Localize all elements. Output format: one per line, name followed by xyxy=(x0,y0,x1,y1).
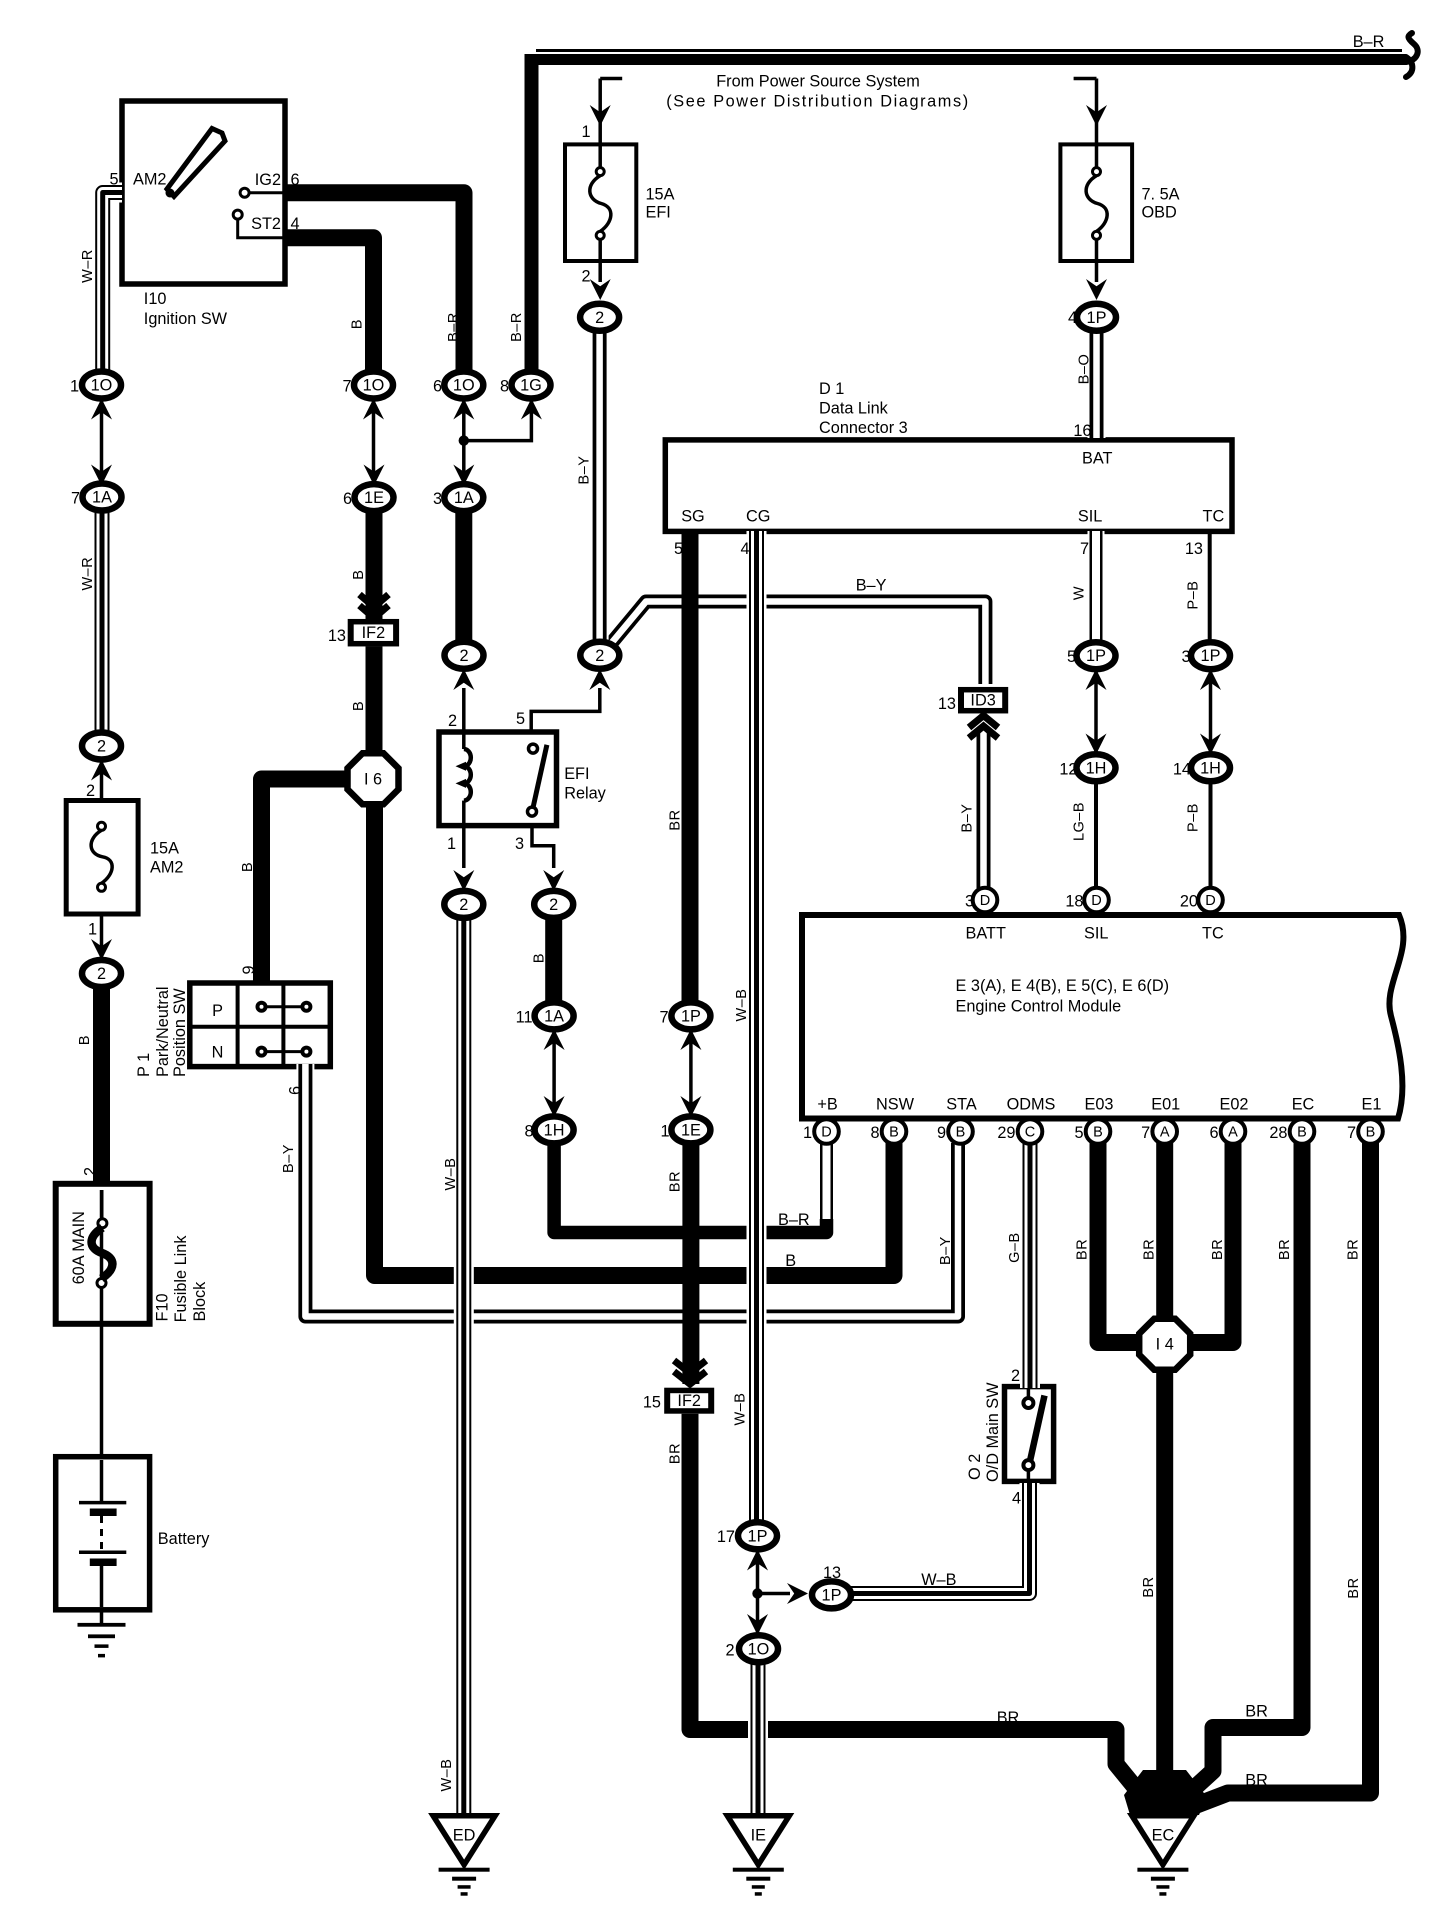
svg-text:IF2: IF2 xyxy=(362,624,386,642)
svg-text:W–R: W–R xyxy=(80,557,96,591)
svg-text:P–B: P–B xyxy=(1186,803,1202,832)
svg-text:1P: 1P xyxy=(822,1586,842,1604)
thin-double wire from ECM +B pin down to B-R corner xyxy=(818,1143,835,1228)
connector 1P pin 17 xyxy=(738,1522,777,1549)
svg-text:1: 1 xyxy=(803,1124,812,1142)
svg-text:Connector 3: Connector 3 xyxy=(819,419,908,437)
svg-text:4: 4 xyxy=(740,540,749,558)
arrow into connector 1P(3) xyxy=(1200,669,1221,690)
arrow into connector 1P(5) xyxy=(1086,669,1107,690)
wire BR from ECM E03 pin 5 to junction I4 xyxy=(1098,1143,1150,1343)
wire B from connector 1E(6) through IF2(13) to junction I6 xyxy=(366,509,383,760)
svg-text:3: 3 xyxy=(433,490,442,508)
thin link 1A(11) to 1H(8) xyxy=(552,1028,556,1120)
fuse tag IF2 pin 13 xyxy=(348,619,399,647)
svg-text:B–Y: B–Y xyxy=(577,456,593,485)
connector ID3 pin 13 xyxy=(958,687,1008,714)
svg-text:9: 9 xyxy=(240,965,258,974)
thin link 1O(1) to 1A(7) xyxy=(100,396,104,488)
svg-text:O/D Main SW: O/D Main SW xyxy=(984,1382,1002,1482)
svg-text:B–Y: B–Y xyxy=(938,1236,954,1265)
arrow into connector 2 below relay pin 3 xyxy=(543,870,564,891)
svg-text:BATT: BATT xyxy=(966,925,1006,943)
svg-text:3: 3 xyxy=(515,835,524,853)
svg-text:W–B: W–B xyxy=(443,1158,459,1191)
svg-text:EFI: EFI xyxy=(646,204,671,222)
svg-text:29: 29 xyxy=(997,1124,1015,1142)
svg-text:B: B xyxy=(351,701,367,711)
svg-text:IG2: IG2 xyxy=(255,171,281,189)
ECM pin EC circle 28 xyxy=(1290,1119,1315,1144)
svg-text:EC: EC xyxy=(1292,1096,1315,1114)
wire BR from ECM E02 pin 6 to junction I4 xyxy=(1180,1143,1233,1343)
svg-text:13: 13 xyxy=(938,695,956,713)
pigtail hook at end of B-R feed xyxy=(1406,33,1418,77)
svg-text:ODMS: ODMS xyxy=(1007,1096,1056,1114)
svg-text:E01: E01 xyxy=(1151,1096,1180,1114)
svg-text:4: 4 xyxy=(1012,1490,1021,1508)
wire W-B from DLC3 CG pin 4 to connector 1P(17) xyxy=(747,531,767,1524)
svg-text:D 1: D 1 xyxy=(819,380,844,398)
svg-text:1O: 1O xyxy=(91,377,113,395)
svg-text:EC: EC xyxy=(1152,1827,1175,1845)
svg-text:1O: 1O xyxy=(453,377,475,395)
svg-text:5: 5 xyxy=(1067,648,1076,666)
ignition switch AM2 contact and lever xyxy=(166,129,286,238)
svg-text:2: 2 xyxy=(82,1167,100,1176)
arrow into connector 1O(1) xyxy=(91,399,112,420)
svg-text:A: A xyxy=(1228,1125,1238,1141)
svg-text:B: B xyxy=(1093,1125,1103,1141)
svg-text:7: 7 xyxy=(1080,540,1089,558)
svg-text:17: 17 xyxy=(717,1528,735,1546)
stub from power source to OBD fuse xyxy=(1074,79,1097,144)
connector 1P pin 4 below OBD fuse xyxy=(1077,304,1116,331)
svg-text:15A: 15A xyxy=(150,840,179,858)
svg-text:8: 8 xyxy=(500,378,509,396)
svg-text:1: 1 xyxy=(660,1123,669,1141)
wire B thick from park/neutral switch pin 9 to junction I6 xyxy=(262,779,351,985)
svg-text:7. 5A: 7. 5A xyxy=(1142,186,1180,204)
svg-text:5: 5 xyxy=(674,540,683,558)
svg-text:1H: 1H xyxy=(544,1121,565,1139)
svg-text:13: 13 xyxy=(823,1564,841,1582)
arrow into connector 2 above relay pin 2 xyxy=(453,669,474,690)
wire B from connector 2 to connector 1A(11) xyxy=(545,917,562,1005)
EFI relay switch xyxy=(528,744,547,816)
thin link 1P(3) to 1H(14) xyxy=(1209,668,1213,757)
data link connector D1 box xyxy=(665,440,1232,532)
svg-text:G–B: G–B xyxy=(1007,1232,1023,1263)
svg-text:P–B: P–B xyxy=(1186,581,1202,610)
arrow into connector 1H(14) xyxy=(1200,734,1221,755)
EFI relay box xyxy=(439,732,557,826)
ECM pin ODMS circle 29 xyxy=(1018,1119,1043,1144)
arrow into connector 2 below relay pin 1 xyxy=(453,870,474,891)
svg-text:1O: 1O xyxy=(748,1640,770,1658)
svg-text:ST2: ST2 xyxy=(251,215,281,233)
svg-text:1: 1 xyxy=(88,921,97,939)
svg-text:1: 1 xyxy=(70,378,79,396)
park/neutral position switch P1 box xyxy=(190,983,330,1067)
arrow into connector 1G(8) xyxy=(521,399,542,420)
svg-text:1G: 1G xyxy=(520,377,542,395)
svg-text:BR: BR xyxy=(997,1709,1020,1727)
arrow into OBD fuse xyxy=(1086,105,1107,126)
connector 1O pin 2 xyxy=(739,1635,778,1662)
connector 1P pin 5 xyxy=(1077,642,1116,669)
svg-text:1A: 1A xyxy=(92,489,112,507)
svg-text:60A MAIN: 60A MAIN xyxy=(70,1211,88,1284)
connector 2 below relay pin 1 xyxy=(444,891,483,918)
engine control module box with torn right edge xyxy=(802,915,1403,1119)
thin wire relay pin2 up to connector 2 xyxy=(462,688,466,732)
svg-text:2: 2 xyxy=(1011,1367,1020,1385)
svg-text:Engine Control Module: Engine Control Module xyxy=(956,998,1122,1016)
svg-text:B–Y: B–Y xyxy=(959,804,975,833)
svg-text:1A: 1A xyxy=(454,489,474,507)
svg-text:2: 2 xyxy=(86,782,95,800)
svg-text:2: 2 xyxy=(448,712,457,730)
connector 1O pin 7 xyxy=(354,372,393,399)
thin wire relay pin3 down to connector 2 xyxy=(532,826,554,868)
wire B-Y from EFI fuse branch to connector ID3 xyxy=(609,602,985,685)
svg-text:W: W xyxy=(1071,586,1087,600)
svg-text:1E: 1E xyxy=(364,489,384,507)
svg-text:8: 8 xyxy=(870,1124,879,1142)
ECM pin STA circle 9 xyxy=(948,1119,973,1144)
connector 1H pin 12 xyxy=(1077,754,1116,781)
svg-text:I 6: I 6 xyxy=(364,770,382,788)
connector 2 above relay pin 2 xyxy=(445,642,484,669)
svg-text:5: 5 xyxy=(109,171,118,189)
svg-text:6: 6 xyxy=(1209,1124,1218,1142)
svg-text:18: 18 xyxy=(1065,893,1083,911)
svg-text:I 4: I 4 xyxy=(1156,1336,1174,1354)
svg-text:8: 8 xyxy=(524,1123,533,1141)
svg-text:1: 1 xyxy=(447,835,456,853)
wire LG-B from connector 1H(12) to ECM SIL pin 18 xyxy=(1094,780,1098,890)
arrow into connector 2 above relay pin 5 xyxy=(589,669,610,690)
ground EC xyxy=(1132,1816,1194,1896)
svg-text:6: 6 xyxy=(291,171,300,189)
svg-text:1P: 1P xyxy=(1201,647,1221,665)
EFI relay coil xyxy=(456,732,471,826)
svg-text:D: D xyxy=(1205,893,1215,909)
svg-text:16: 16 xyxy=(1073,422,1091,440)
svg-text:D: D xyxy=(980,893,990,909)
fuse 7.5A OBD box xyxy=(1060,144,1132,261)
connector 2 above relay pin 5 xyxy=(580,642,619,669)
svg-text:13: 13 xyxy=(328,627,346,645)
wire BR from DLC3 SG pin 5 down to connector 1P(7) xyxy=(682,531,699,1004)
svg-text:2: 2 xyxy=(459,896,468,914)
arrow into connector 1O(2) xyxy=(747,1614,768,1635)
svg-text:Relay: Relay xyxy=(564,785,606,803)
arrow into connector 2 below EFI fuse xyxy=(590,279,611,300)
svg-text:Fusible Link: Fusible Link xyxy=(172,1235,190,1323)
svg-text:2: 2 xyxy=(97,965,106,983)
connector 1E pin 6 xyxy=(355,484,394,511)
svg-text:7: 7 xyxy=(71,490,80,508)
svg-text:BR: BR xyxy=(1141,1239,1157,1260)
svg-text:6: 6 xyxy=(287,1086,305,1095)
svg-text:4: 4 xyxy=(1068,309,1077,327)
svg-text:E03: E03 xyxy=(1085,1096,1114,1114)
wire BR from ECM EC pin 28 to ground EC xyxy=(1167,1143,1302,1813)
connector 1A pin 3 xyxy=(444,484,483,511)
stub from power source to EFI fuse xyxy=(600,79,622,144)
svg-text:W–B: W–B xyxy=(439,1759,455,1792)
thin link 1O(7) to 1E(6) xyxy=(372,396,376,490)
svg-text:Data Link: Data Link xyxy=(819,400,889,418)
svg-text:ID3: ID3 xyxy=(970,692,995,710)
chevron arrow into fuse IF2(15) xyxy=(674,1361,706,1385)
svg-text:7: 7 xyxy=(1347,1124,1356,1142)
svg-text:2: 2 xyxy=(581,268,590,286)
chevron arrow into fuse IF2(13) xyxy=(360,595,389,619)
fuse 15A AM2 box xyxy=(66,801,138,915)
connector 1G pin 8 xyxy=(512,372,551,399)
svg-text:EFI: EFI xyxy=(564,765,589,783)
thin link 1P(5) to 1H(12) xyxy=(1094,668,1098,757)
arrow into connector 1A(7) xyxy=(91,465,112,486)
arrow into connector 2 above AM2 fuse xyxy=(91,760,112,781)
arrow into connector 1P(7) xyxy=(680,1029,701,1050)
connector 2 above AM2 fuse xyxy=(82,733,121,760)
svg-text:B: B xyxy=(1297,1125,1307,1141)
svg-text:9: 9 xyxy=(937,1124,946,1142)
junction dot on W-B wire xyxy=(752,1588,762,1598)
thin wire relay pin1 down to connector 2 xyxy=(462,826,466,868)
svg-text:OBD: OBD xyxy=(1142,204,1177,222)
svg-text:15A: 15A xyxy=(646,186,675,204)
svg-text:AM2: AM2 xyxy=(150,859,183,877)
svg-text:D: D xyxy=(821,1125,831,1141)
thin wire fusible link to battery xyxy=(100,1190,104,1457)
thin link 1P(7) to 1E(1) xyxy=(689,1028,693,1120)
ECM pin E02 circle 6 xyxy=(1221,1119,1246,1144)
connector 1H pin 14 xyxy=(1191,754,1230,781)
AM2 fuse element xyxy=(91,822,112,891)
park/neutral switch internals xyxy=(190,983,330,1067)
svg-text:12: 12 xyxy=(1059,761,1077,779)
svg-text:1P: 1P xyxy=(681,1007,701,1025)
DLC3 SIL pin circle 18 xyxy=(1084,888,1109,913)
svg-text:BR: BR xyxy=(1245,1703,1268,1721)
O/D main switch internals xyxy=(1023,1389,1044,1479)
svg-text:2: 2 xyxy=(725,1642,734,1660)
wire B-Y from ID3 to ECM BATT pin 3 xyxy=(975,728,993,890)
connector 2 below EFI fuse xyxy=(580,304,619,331)
svg-text:BR: BR xyxy=(1141,1576,1157,1597)
wire B-R from connector 1H to ECM +B (horizontal run) xyxy=(554,1141,826,1233)
svg-text:D: D xyxy=(1091,893,1101,909)
svg-text:B–R: B–R xyxy=(446,312,462,342)
OBD fuse element xyxy=(1086,168,1107,240)
junction dot xyxy=(459,435,469,445)
fusible link F10 element xyxy=(92,1190,113,1318)
svg-text:E1: E1 xyxy=(1362,1096,1382,1114)
connector 1P pin 3 xyxy=(1191,642,1230,669)
battery ground symbol xyxy=(78,1623,126,1658)
svg-text:B: B xyxy=(350,319,366,329)
svg-text:BR: BR xyxy=(1346,1577,1362,1598)
svg-text:I10: I10 xyxy=(144,290,167,308)
svg-text:2: 2 xyxy=(595,647,604,665)
DLC3 BATT pin circle 3 xyxy=(973,888,998,913)
arrow into connector 1O(7) xyxy=(363,399,384,420)
svg-text:28: 28 xyxy=(1269,1124,1287,1142)
ECM pin E1 circle 7 xyxy=(1358,1119,1383,1144)
svg-text:E 3(A), E 4(B), E 5(C), E 6(D): E 3(A), E 4(B), E 5(C), E 6(D) xyxy=(956,977,1170,995)
wire W-R from connector 1A(7) to connector 2 xyxy=(92,509,112,734)
svg-text:1H: 1H xyxy=(1086,759,1107,777)
svg-text:W–B: W–B xyxy=(921,1571,956,1589)
connector 1A pin 11 xyxy=(535,1002,574,1029)
wire B ignition ST2 to connector 1O(7) xyxy=(285,238,374,378)
arrow into EFI fuse xyxy=(590,105,611,126)
svg-text:B: B xyxy=(240,862,256,872)
svg-text:P 1: P 1 xyxy=(135,1053,153,1077)
wire BR from IF2(15) to ground EC (bottom bus) xyxy=(690,1414,1156,1813)
svg-text:5: 5 xyxy=(1074,1124,1083,1142)
svg-text:1: 1 xyxy=(581,123,590,141)
DLC3 TC pin circle 20 xyxy=(1198,888,1223,913)
svg-text:6: 6 xyxy=(433,378,442,396)
svg-text:IE: IE xyxy=(751,1827,767,1845)
svg-text:N: N xyxy=(212,1044,224,1062)
wire inside EFI fuse pins xyxy=(598,145,602,282)
wire P-B from DLC3 TC pin 13 to connector 1P(3) xyxy=(1208,531,1212,645)
svg-text:2: 2 xyxy=(595,309,604,327)
ignition switch I10 box xyxy=(122,101,285,284)
svg-text:SIL: SIL xyxy=(1078,508,1102,526)
svg-text:BR: BR xyxy=(1210,1239,1226,1260)
ECM pin NSW circle 8 xyxy=(882,1119,907,1144)
svg-text:B: B xyxy=(351,570,367,580)
svg-text:1O: 1O xyxy=(363,377,385,395)
svg-text:NSW: NSW xyxy=(876,1096,915,1114)
wire B from junction I6 to ECM NSW (horizontal run) xyxy=(375,798,895,1276)
wire B-R from connector 1A(3) to connector 2 above relay xyxy=(455,509,472,643)
svg-text:AM2: AM2 xyxy=(133,171,166,189)
connector 1H pin 8 xyxy=(535,1116,574,1143)
svg-text:14: 14 xyxy=(1173,761,1191,779)
svg-text:+B: +B xyxy=(817,1096,837,1114)
connector 1P pin 13 xyxy=(812,1581,851,1608)
svg-text:A: A xyxy=(1160,1125,1170,1141)
svg-text:1H: 1H xyxy=(1200,759,1221,777)
arrow into connector 1P(13) xyxy=(787,1583,808,1604)
svg-text:W–R: W–R xyxy=(80,249,96,283)
svg-text:B: B xyxy=(785,1252,796,1270)
arrow into connector 1P(4) below OBD fuse xyxy=(1086,279,1107,300)
svg-text:BR: BR xyxy=(668,809,684,830)
thin wire battery to ground xyxy=(100,1610,104,1625)
ground ED xyxy=(433,1816,495,1896)
wire B-O from OBD fuse to DLC3 BAT pin 16 xyxy=(1088,330,1106,438)
arrow into connector 1H(12) xyxy=(1086,734,1107,755)
ground IE xyxy=(727,1816,789,1896)
svg-text:B–O: B–O xyxy=(1077,354,1093,385)
svg-text:TC: TC xyxy=(1203,508,1225,526)
svg-text:B: B xyxy=(956,1125,966,1141)
connector 1A pin 7 xyxy=(83,484,122,511)
thin-double wire W from DLC3 SIL to connector 1P(5) xyxy=(1088,531,1105,645)
junction I4 xyxy=(1139,1319,1190,1370)
svg-text:1P: 1P xyxy=(748,1527,768,1545)
svg-text:15: 15 xyxy=(643,1394,661,1412)
svg-text:BR: BR xyxy=(1277,1239,1293,1260)
arrow into connector 2 below AM2 fuse xyxy=(91,939,112,960)
wire B from connector 2 to fusible link F10 xyxy=(93,985,110,1185)
svg-text:BAT: BAT xyxy=(1082,450,1113,468)
svg-text:W–B: W–B xyxy=(734,989,750,1022)
svg-text:2: 2 xyxy=(459,647,468,665)
svg-text:P: P xyxy=(212,1002,223,1020)
battery internals xyxy=(79,1460,126,1607)
svg-text:4: 4 xyxy=(291,215,300,233)
svg-text:STA: STA xyxy=(946,1096,977,1114)
wire W-R from ignition AM2 pin to connector 1O(1) xyxy=(103,193,122,375)
connector 1O pin 6 xyxy=(444,372,483,399)
svg-text:Ignition SW: Ignition SW xyxy=(144,310,228,328)
connector 2 below AM2 fuse xyxy=(82,960,121,987)
svg-text:B: B xyxy=(532,953,548,963)
thin wire relay pin5 up to connector 2 xyxy=(531,688,600,734)
thin link connector 2 to AM2 fuse xyxy=(100,759,104,962)
wire inside OBD fuse pins xyxy=(1095,145,1099,282)
svg-text:20: 20 xyxy=(1180,893,1198,911)
svg-text:BR: BR xyxy=(1346,1239,1362,1260)
svg-text:1A: 1A xyxy=(544,1007,564,1025)
connector 1O pin 1 xyxy=(82,372,121,399)
svg-text:IF2: IF2 xyxy=(677,1392,701,1410)
svg-text:SG: SG xyxy=(681,508,705,526)
svg-text:7: 7 xyxy=(342,378,351,396)
wire B-Y vertical from EFI fuse to connector 2 xyxy=(591,330,609,645)
ECM pin +B circle 1 xyxy=(814,1119,839,1144)
fuse tag IF2 pin 15 xyxy=(664,1388,714,1414)
arrow into connector 1O(6) xyxy=(453,399,474,420)
svg-text:2: 2 xyxy=(97,738,106,756)
svg-text:B–R: B–R xyxy=(1353,33,1385,51)
svg-text:Position SW: Position SW xyxy=(171,988,189,1077)
svg-text:W–B: W–B xyxy=(733,1393,749,1426)
chevron arrow into connector ID3 xyxy=(969,716,998,739)
svg-text:11: 11 xyxy=(516,1009,533,1027)
wire P-B from connector 1H(14) to ECM TC pin 20 xyxy=(1209,780,1213,890)
svg-text:BR: BR xyxy=(1245,1772,1268,1790)
wire B-R ignition IG2 to connector 1O(6) xyxy=(285,193,464,378)
wire W-B from connector 1O(2) to ground IE xyxy=(748,1660,768,1814)
svg-text:1P: 1P xyxy=(1086,647,1106,665)
svg-text:B–R: B–R xyxy=(778,1211,810,1229)
battery box xyxy=(56,1457,150,1610)
svg-text:B: B xyxy=(365,862,381,872)
svg-text:2: 2 xyxy=(549,896,558,914)
arrow into connector 1P(17) xyxy=(747,1550,768,1571)
connector 1E pin 1 xyxy=(671,1116,710,1143)
svg-text:E02: E02 xyxy=(1220,1096,1249,1114)
svg-text:BR: BR xyxy=(668,1443,684,1464)
wire B-R power feed top bar with pigtail xyxy=(526,54,1406,65)
arrow into connector 1E(1) xyxy=(680,1096,701,1117)
wire W-B from connector 1P(13) to O/D main switch pin 4 xyxy=(851,1483,1030,1594)
svg-text:Park/Neutral: Park/Neutral xyxy=(154,987,172,1078)
O/D main switch O2 box xyxy=(1005,1387,1054,1482)
